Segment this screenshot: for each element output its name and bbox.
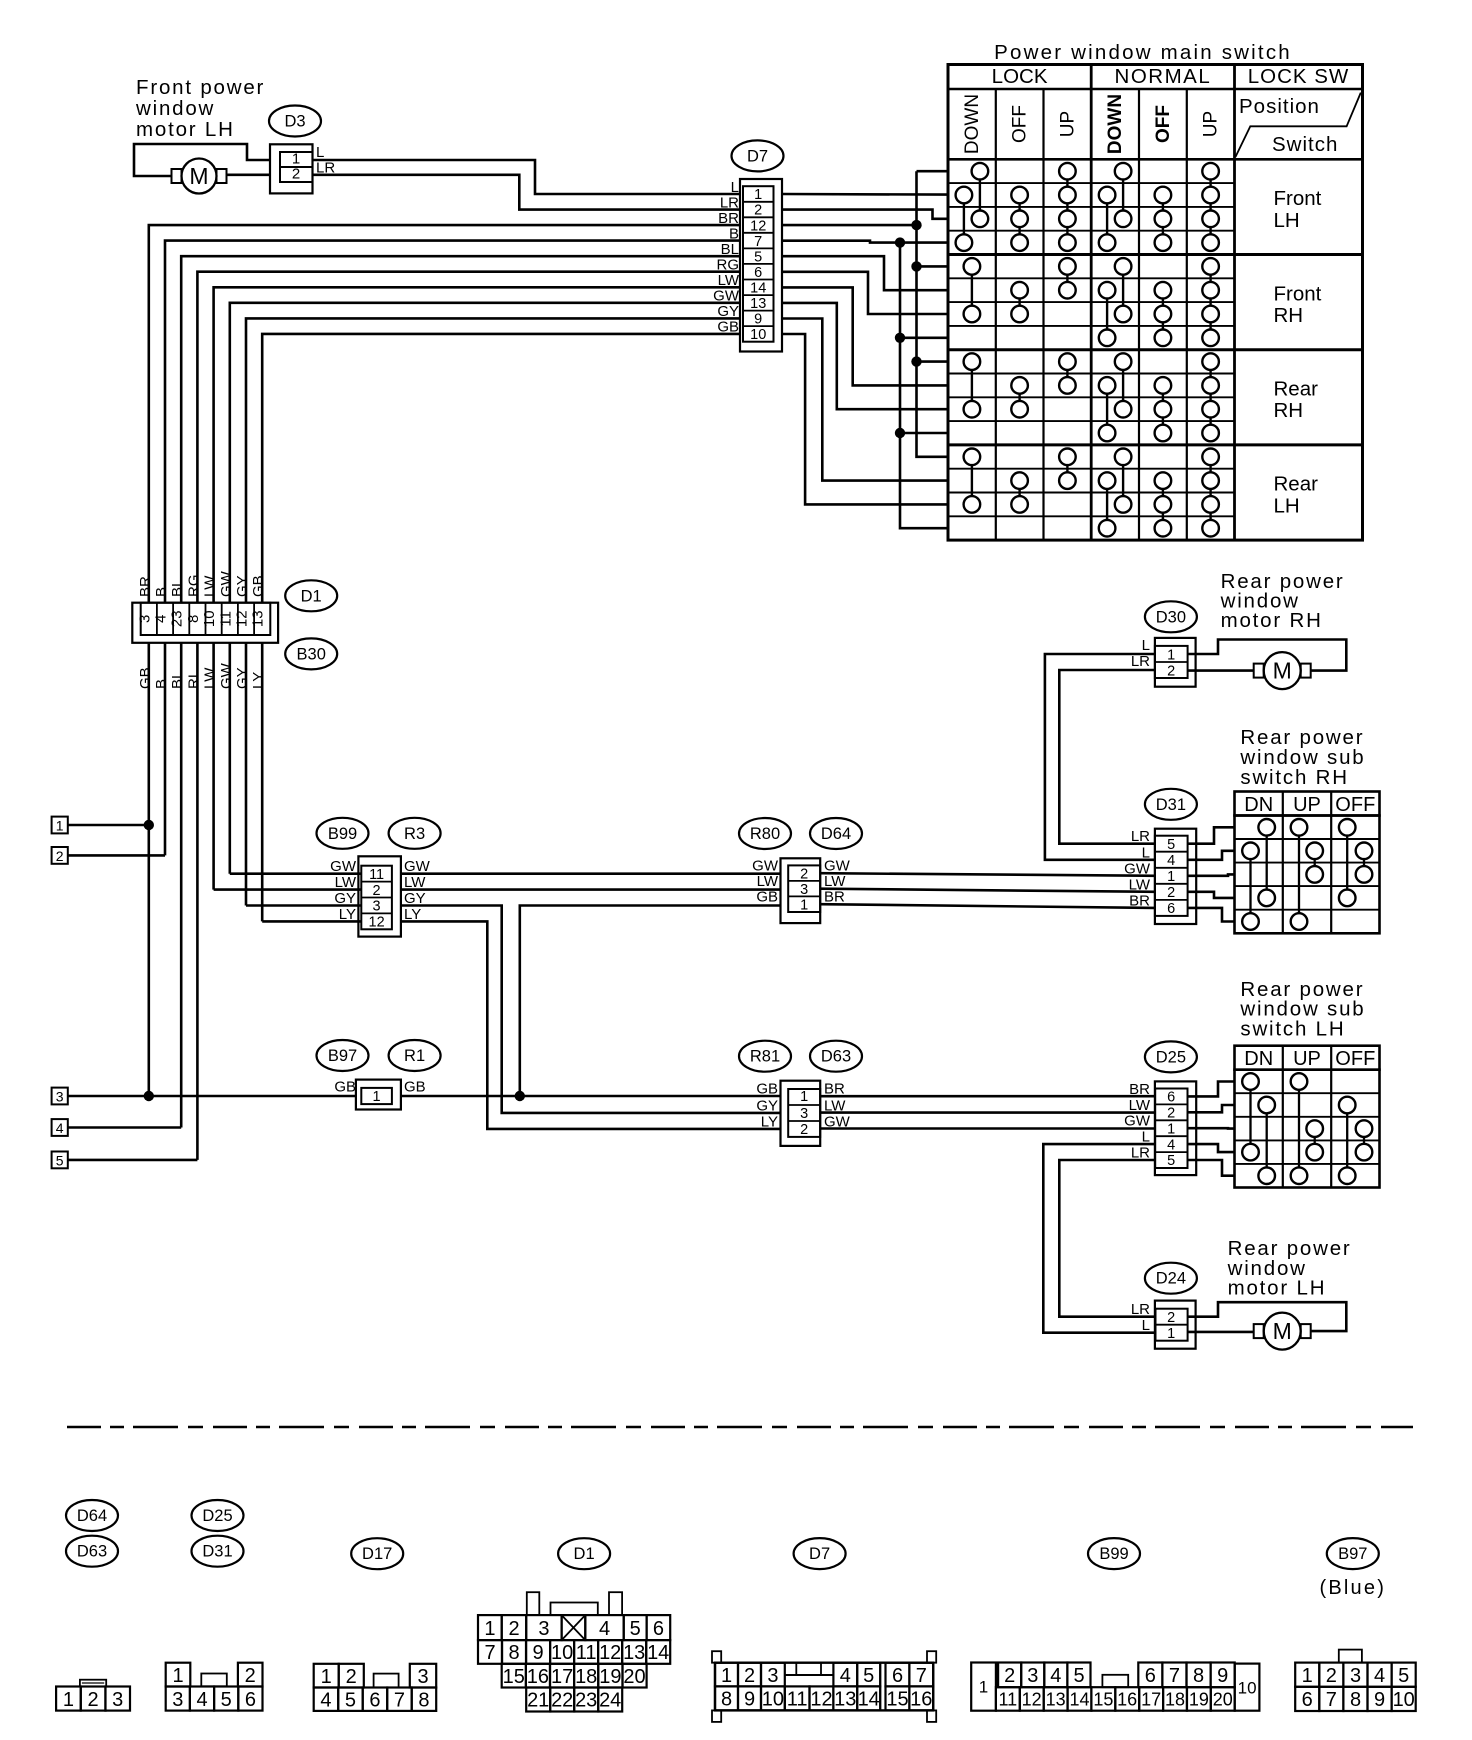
wire B below D1 (164, 643, 167, 856)
svg-text:BR: BR (1129, 1081, 1150, 1098)
svg-text:13: 13 (250, 610, 267, 627)
pinout D7 connector (712, 1651, 721, 1663)
wire LY D1 to B99 pin12 (262, 920, 361, 923)
pinout D64-D63 connector (80, 1680, 106, 1687)
connector D7 designator oval (732, 140, 784, 171)
svg-text:8: 8 (185, 615, 202, 623)
wire GW D7 to table row11 (782, 303, 948, 409)
svg-text:10: 10 (1238, 1678, 1257, 1697)
svg-text:GB: GB (404, 1079, 426, 1096)
bottom oval D31 (192, 1536, 244, 1567)
bottom oval B99 (1088, 1538, 1140, 1569)
wire L D25 down to D24 pin1 (1043, 1144, 1155, 1333)
svg-text:8: 8 (1350, 1689, 1361, 1711)
svg-text:LR: LR (1131, 828, 1150, 845)
svg-text:7: 7 (916, 1665, 927, 1687)
svg-text:D3: D3 (284, 113, 305, 131)
wire GY D7 to table row14 (782, 319, 948, 481)
switch contacts group Front RH (964, 258, 981, 275)
svg-text:6: 6 (245, 1689, 256, 1711)
svg-text:Switch: Switch (1272, 133, 1338, 156)
bottom oval D64 (66, 1500, 118, 1531)
svg-text:D1: D1 (301, 587, 322, 605)
pinout B97 connector (1339, 1650, 1362, 1663)
svg-text:GY: GY (234, 575, 251, 597)
svg-text:18: 18 (575, 1666, 597, 1688)
wire BL D7 to D1 bend (181, 256, 740, 603)
svg-text:23: 23 (169, 610, 186, 627)
wire GW D63 to D25 pin1 (820, 1127, 1155, 1130)
svg-text:8: 8 (721, 1689, 732, 1711)
svg-text:6: 6 (653, 1618, 664, 1640)
svg-text:7: 7 (484, 1642, 495, 1664)
bus V1 stub row12 (900, 432, 948, 435)
bottom oval D7 (794, 1538, 846, 1569)
junction dots on V2 (911, 220, 921, 230)
svg-text:LOCK: LOCK (992, 65, 1048, 88)
svg-text:GW: GW (752, 858, 779, 875)
svg-text:L: L (731, 179, 739, 196)
svg-text:2: 2 (800, 866, 808, 882)
wire motor LH loop left (134, 144, 270, 176)
svg-text:6: 6 (369, 1689, 380, 1711)
svg-text:D64: D64 (821, 825, 851, 843)
bus V2 BR net vertical (917, 171, 949, 457)
svg-text:2: 2 (1167, 885, 1175, 901)
wire GB R1 to R81 pin1 (401, 1095, 781, 1098)
svg-text:11: 11 (787, 1689, 808, 1711)
svg-text:LW: LW (1129, 876, 1151, 893)
svg-text:1: 1 (1167, 869, 1175, 885)
connector B97-R1 (356, 1080, 401, 1110)
wire BR D64 to D31 pin6 (820, 904, 1155, 908)
svg-text:12: 12 (369, 915, 385, 931)
svg-text:RL: RL (185, 670, 202, 689)
svg-text:2: 2 (800, 1122, 808, 1138)
connector D3 (270, 144, 313, 193)
svg-text:2: 2 (1167, 664, 1175, 680)
wire D30 pin2 to motor RH (1188, 669, 1254, 672)
wire box4 to BL wire (68, 1126, 181, 1129)
svg-text:9: 9 (754, 312, 762, 328)
bus V2 stub row5 (917, 265, 949, 268)
svg-text:16: 16 (910, 1689, 932, 1711)
svg-text:5: 5 (1167, 837, 1175, 853)
svg-text:DOWN: DOWN (1105, 94, 1126, 154)
svg-text:14: 14 (1069, 1689, 1089, 1709)
svg-text:LOCK SW: LOCK SW (1248, 65, 1350, 88)
svg-text:7: 7 (1169, 1665, 1180, 1687)
connector R81 designator oval (739, 1041, 791, 1072)
svg-text:D25: D25 (202, 1507, 232, 1525)
svg-text:13: 13 (750, 296, 766, 312)
wire GW D7 to D1 bend (230, 303, 740, 603)
svg-text:L: L (1142, 844, 1150, 861)
svg-text:Front power: Front power (136, 76, 265, 99)
svg-text:BR: BR (137, 576, 154, 597)
wire LR D30 down to D31 pin5 (1059, 670, 1155, 844)
wire GW R3 to R80 (401, 872, 781, 875)
svg-text:GY: GY (234, 667, 251, 689)
svg-text:2: 2 (1004, 1665, 1015, 1687)
svg-text:3: 3 (373, 899, 381, 915)
svg-text:2: 2 (1326, 1665, 1337, 1687)
svg-text:12: 12 (234, 610, 251, 627)
svg-text:Rear: Rear (1274, 378, 1319, 401)
wire RG D7 to table row7 (782, 272, 948, 314)
svg-text:GW: GW (218, 662, 235, 689)
svg-text:20: 20 (623, 1666, 645, 1688)
wire LW R3 to R80 (401, 888, 781, 891)
svg-text:Power window main switch: Power window main switch (994, 41, 1292, 64)
wire LW D1 to B99 pin2 (214, 888, 362, 891)
svg-text:motor RH: motor RH (1221, 609, 1323, 632)
svg-text:3: 3 (767, 1665, 778, 1687)
motor M rear LH (1254, 1313, 1311, 1350)
svg-text:LW: LW (202, 575, 219, 597)
wire GW below D1 (229, 643, 232, 874)
svg-text:Front: Front (1274, 187, 1322, 210)
wire LW D7 to D1 bend (214, 287, 740, 602)
svg-text:9: 9 (744, 1689, 755, 1711)
svg-text:1: 1 (754, 187, 762, 203)
svg-text:M: M (1273, 1318, 1292, 1344)
connector R80 designator oval (739, 818, 791, 849)
svg-text:D1: D1 (574, 1545, 595, 1563)
svg-text:4: 4 (1167, 853, 1175, 869)
svg-text:3: 3 (112, 1689, 123, 1711)
svg-text:1: 1 (1167, 648, 1175, 664)
svg-text:DOWN: DOWN (962, 94, 983, 154)
wire GW D64 to D31 pin1 (820, 873, 1155, 876)
svg-text:D24: D24 (1156, 1270, 1186, 1288)
wire GY R3 down to R81 pin3 (401, 906, 781, 1113)
motor M rear RH (1254, 652, 1311, 689)
svg-text:3: 3 (538, 1618, 549, 1640)
svg-text:D64: D64 (77, 1507, 107, 1525)
svg-text:1: 1 (56, 817, 64, 833)
svg-text:GB: GB (756, 889, 778, 906)
svg-text:D17: D17 (362, 1545, 392, 1563)
svg-text:L: L (1142, 1317, 1150, 1334)
svg-text:B99: B99 (1099, 1545, 1128, 1563)
wire GB below D1 (148, 643, 151, 1096)
svg-text:D7: D7 (809, 1545, 830, 1563)
svg-text:B99: B99 (328, 825, 357, 843)
svg-text:DN: DN (1244, 794, 1273, 816)
svg-text:R81: R81 (750, 1048, 780, 1066)
wire GW D1 to B99 pin11 (230, 872, 361, 875)
terminal box 4 (52, 1119, 68, 1136)
bus V2 stub row9 (917, 360, 949, 363)
bottom oval B97 (1327, 1538, 1379, 1569)
svg-text:9: 9 (1374, 1689, 1385, 1711)
svg-text:1: 1 (1167, 1121, 1175, 1137)
svg-text:4: 4 (1050, 1665, 1061, 1687)
svg-text:LW: LW (757, 873, 779, 890)
wire GY below D1 (245, 643, 248, 906)
wire D24 pin2 to motor LH (1188, 1302, 1347, 1331)
svg-text:B: B (153, 587, 170, 597)
wire L D3 to D7 pin1 (313, 160, 741, 194)
svg-text:5: 5 (1073, 1665, 1084, 1687)
connector D25 designator oval (1145, 1041, 1197, 1072)
connector D24 designator oval (1145, 1263, 1197, 1294)
svg-text:R80: R80 (750, 825, 780, 843)
svg-text:12: 12 (750, 218, 766, 234)
svg-text:7: 7 (1326, 1689, 1337, 1711)
svg-text:12: 12 (810, 1689, 832, 1711)
svg-text:1: 1 (1167, 1326, 1175, 1342)
junction dot GB branch (515, 1091, 525, 1101)
svg-text:Position: Position (1239, 95, 1320, 118)
svg-text:4: 4 (840, 1665, 851, 1687)
junction dot box3 GB (144, 1091, 154, 1101)
pinout B99 connector (971, 1663, 996, 1711)
svg-text:5: 5 (1167, 1153, 1175, 1169)
junction dots on V1 (895, 237, 905, 247)
svg-text:2: 2 (373, 883, 381, 899)
svg-text:LY: LY (250, 672, 267, 689)
bus V2 stub row1 (917, 170, 949, 173)
connector B30 designator oval (285, 638, 337, 669)
pinout D25-D31 connector (166, 1663, 191, 1687)
svg-text:LH: LH (1274, 494, 1300, 517)
svg-text:7: 7 (754, 234, 762, 250)
svg-text:11: 11 (369, 867, 384, 883)
svg-text:D31: D31 (202, 1543, 232, 1561)
connector D63 designator oval (810, 1041, 862, 1072)
svg-text:B97: B97 (1338, 1545, 1367, 1563)
svg-text:15: 15 (886, 1689, 908, 1711)
svg-text:UP: UP (1293, 1048, 1321, 1070)
svg-text:2: 2 (1167, 1310, 1175, 1326)
pinout D1 connector (527, 1592, 540, 1615)
wire GB D7 to D1 bend (262, 334, 740, 603)
svg-text:1: 1 (373, 1089, 381, 1105)
svg-text:4: 4 (1167, 1137, 1175, 1153)
svg-text:18: 18 (1165, 1689, 1185, 1709)
svg-text:12: 12 (599, 1642, 621, 1664)
svg-text:6: 6 (1145, 1665, 1156, 1687)
svg-text:3: 3 (417, 1666, 428, 1688)
wire BR D63 to D25 pin6 (820, 1095, 1155, 1098)
svg-text:BL: BL (169, 579, 186, 597)
svg-text:D31: D31 (1156, 796, 1186, 814)
wire L D30 down to D31 pin4 (1045, 654, 1155, 860)
wire box2 to B wire (68, 854, 165, 857)
svg-text:9: 9 (1217, 1665, 1228, 1687)
svg-text:2: 2 (754, 203, 762, 219)
switch contacts group Rear LH (964, 449, 981, 466)
svg-text:M: M (189, 163, 208, 189)
svg-text:24: 24 (599, 1690, 621, 1712)
wire L D7 to table row2 (782, 193, 948, 196)
svg-text:5: 5 (630, 1618, 641, 1640)
svg-text:15: 15 (1093, 1689, 1113, 1709)
svg-text:motor LH: motor LH (1228, 1277, 1327, 1300)
svg-text:R1: R1 (404, 1047, 425, 1065)
connector D1-B30 (132, 603, 278, 643)
svg-text:3: 3 (800, 1106, 808, 1122)
svg-text:1: 1 (63, 1689, 74, 1711)
svg-text:motor LH: motor LH (136, 118, 235, 141)
svg-text:LH: LH (1274, 209, 1300, 232)
svg-text:6: 6 (1302, 1689, 1313, 1711)
wire LY R3 down to R81 pin2 (401, 921, 781, 1129)
svg-text:LR: LR (1131, 1301, 1150, 1318)
svg-text:2: 2 (245, 1665, 256, 1687)
wire LR D25 down to D24 pin2 (1059, 1160, 1155, 1317)
svg-text:RG: RG (185, 575, 202, 598)
svg-text:UP: UP (1293, 794, 1321, 816)
svg-text:6: 6 (754, 265, 762, 281)
svg-text:9: 9 (533, 1642, 544, 1664)
svg-text:OFF: OFF (1010, 105, 1031, 143)
connector R3 designator oval (389, 818, 441, 849)
bus V1 B net vertical (900, 243, 948, 529)
connector D30 (1155, 638, 1196, 687)
svg-text:5: 5 (1398, 1665, 1409, 1687)
connector B99-R3 (358, 856, 401, 936)
svg-text:2: 2 (88, 1689, 99, 1711)
svg-text:GW: GW (218, 570, 235, 597)
svg-text:3: 3 (56, 1088, 64, 1104)
pinout D17 connector (314, 1664, 339, 1688)
bus V1 stub row8 (900, 336, 948, 339)
svg-text:NORMAL: NORMAL (1115, 65, 1212, 88)
wire D24 pin1 to motor LH (1188, 1331, 1254, 1334)
svg-text:14: 14 (647, 1642, 669, 1664)
svg-text:6: 6 (1167, 1090, 1175, 1106)
wire B D7 to table row4 (782, 241, 948, 243)
svg-text:Front: Front (1274, 282, 1322, 305)
wire GY D1 to B99 pin3 (246, 904, 361, 907)
svg-text:UP: UP (1057, 111, 1078, 137)
svg-text:GB: GB (137, 667, 154, 689)
svg-text:1: 1 (172, 1665, 183, 1687)
svg-text:4: 4 (599, 1618, 610, 1640)
connector D3 designator oval (269, 106, 321, 137)
wire box5 to RL wire (68, 1159, 198, 1162)
connector D25 (1155, 1081, 1196, 1175)
svg-text:8: 8 (508, 1642, 519, 1664)
wire LR D3 to D7 pin2 (313, 175, 741, 210)
svg-text:GB: GB (334, 1079, 356, 1096)
svg-text:window: window (135, 97, 215, 120)
wire RL below D1 (196, 643, 199, 1160)
wire LR D7 to table row3 (782, 210, 948, 219)
svg-text:5: 5 (221, 1689, 232, 1711)
terminal box 1 (52, 817, 68, 834)
wire GB branch up to R80 pin1 (520, 906, 781, 1097)
svg-text:B30: B30 (297, 645, 326, 663)
wire BL D7 to table row6 (782, 256, 948, 290)
svg-text:GW: GW (1124, 1113, 1151, 1130)
svg-text:D7: D7 (747, 147, 768, 165)
svg-text:6: 6 (892, 1665, 903, 1687)
bottom oval D17 (351, 1538, 403, 1569)
switch table frame (948, 65, 1363, 541)
svg-text:switch RH: switch RH (1240, 766, 1348, 789)
svg-text:2: 2 (508, 1618, 519, 1640)
svg-text:1: 1 (321, 1666, 332, 1688)
svg-text:R3: R3 (404, 825, 425, 843)
svg-text:D63: D63 (77, 1543, 107, 1561)
svg-text:B: B (153, 679, 170, 689)
sub switch RH table (1235, 792, 1380, 816)
terminal box 5 (52, 1152, 68, 1169)
connector R81-D63 (781, 1081, 821, 1146)
svg-text:L: L (1142, 637, 1150, 654)
svg-text:14: 14 (750, 281, 766, 297)
wire BR D7 to bus V2 (782, 224, 917, 227)
svg-text:D25: D25 (1156, 1048, 1186, 1066)
svg-text:20: 20 (1213, 1689, 1233, 1709)
svg-text:8: 8 (1193, 1665, 1204, 1687)
wire box3 GB to R1 (68, 1095, 356, 1098)
svg-text:3: 3 (1027, 1665, 1038, 1687)
svg-text:2: 2 (56, 848, 64, 864)
svg-text:23: 23 (575, 1690, 597, 1712)
svg-text:21: 21 (527, 1690, 549, 1712)
switch contacts group Front LH (972, 163, 989, 180)
connector D64 designator oval (810, 818, 862, 849)
motor M front LH (172, 159, 227, 194)
svg-text:RH: RH (1274, 399, 1304, 422)
wire LY below D1 (261, 643, 264, 922)
connector D31 designator oval (1145, 789, 1197, 820)
svg-text:LW: LW (202, 667, 219, 689)
svg-text:B97: B97 (328, 1047, 357, 1065)
svg-text:10: 10 (1393, 1689, 1415, 1711)
svg-text:11: 11 (217, 611, 234, 627)
svg-text:GB: GB (250, 575, 267, 597)
svg-text:4: 4 (196, 1689, 207, 1711)
connector D24 (1155, 1301, 1196, 1349)
connector B97 designator oval (317, 1040, 369, 1071)
svg-text:14: 14 (858, 1689, 880, 1711)
svg-text:3: 3 (172, 1689, 183, 1711)
svg-text:12: 12 (1022, 1689, 1042, 1709)
terminal box 3 (52, 1088, 68, 1105)
svg-text:GB: GB (756, 1081, 778, 1098)
svg-text:2: 2 (1167, 1106, 1175, 1122)
bottom oval D63 (66, 1536, 118, 1567)
svg-text:4: 4 (56, 1120, 64, 1136)
svg-text:10: 10 (551, 1642, 573, 1664)
svg-text:LY: LY (761, 1113, 778, 1130)
svg-text:5: 5 (754, 249, 762, 265)
wire RG D7 to D1 bend (197, 272, 740, 603)
svg-text:3: 3 (136, 615, 153, 623)
svg-text:L: L (316, 144, 324, 161)
svg-text:LR: LR (720, 194, 739, 211)
wire LW D63 to D25 pin2 (820, 1111, 1155, 1114)
bottom oval D1 (558, 1538, 610, 1569)
svg-text:OFF: OFF (1153, 105, 1174, 143)
bottom oval D25 (192, 1500, 244, 1531)
sub switch LH table (1235, 1046, 1380, 1070)
svg-text:Rear: Rear (1274, 473, 1319, 496)
svg-text:16: 16 (527, 1666, 549, 1688)
svg-text:16: 16 (1117, 1689, 1137, 1709)
svg-text:7: 7 (394, 1689, 405, 1711)
connector R80-D64 (781, 858, 821, 923)
svg-text:LW: LW (1129, 1097, 1151, 1114)
svg-text:D63: D63 (821, 1048, 851, 1066)
svg-text:11: 11 (998, 1689, 1017, 1709)
